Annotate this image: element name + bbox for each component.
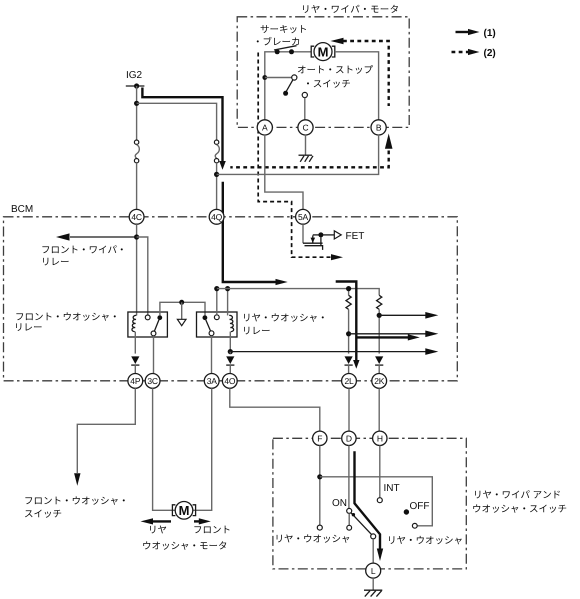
terminal A	[257, 120, 272, 135]
wire: 2L to D terminal	[348, 388, 350, 431]
junction on R2 line	[377, 313, 382, 318]
svg-text:リヤ・ワイパ アンド: リヤ・ワイパ アンド	[473, 490, 561, 501]
svg-text:BCM: BCM	[11, 204, 33, 215]
svg-text:H: H	[377, 433, 383, 443]
svg-text:フロント・ワイパ・: フロント・ワイパ・	[41, 245, 127, 256]
label: circuit breaker	[253, 24, 308, 48]
legend arrow (1)	[456, 28, 496, 39]
wire: relay contact bus with center tap	[160, 300, 205, 319]
svg-text:4O: 4O	[224, 376, 236, 386]
IG2 power terminal	[126, 70, 145, 89]
switch lever ON to washer contact	[351, 513, 376, 539]
svg-text:フロント・ウオッシャ・: フロント・ウオッシャ・	[15, 312, 120, 323]
svg-text:フロント・ウオッシャ・: フロント・ウオッシャ・	[24, 496, 129, 507]
terminal C	[298, 120, 313, 135]
label: rear washer (right)	[387, 536, 463, 547]
ground below C	[299, 135, 314, 162]
junction above 4O diode	[228, 349, 233, 354]
diode D1 above 4P	[131, 356, 139, 373]
junction on R1 line	[346, 331, 351, 336]
svg-text:M: M	[179, 503, 190, 518]
wire: junction to B terminal	[217, 135, 379, 175]
pin 4Q	[209, 209, 224, 224]
dotted feedback line (2): motor to B side	[230, 38, 392, 168]
thick arrow (1) to the right	[357, 334, 420, 340]
svg-text:ウオッシャ・モータ: ウオッシャ・モータ	[142, 541, 228, 552]
svg-text:ウオッシャ・スイッチ: ウオッシャ・スイッチ	[472, 504, 567, 515]
junction below 4C	[134, 234, 139, 239]
svg-text:OFF: OFF	[410, 501, 430, 512]
svg-text:M: M	[318, 44, 329, 59]
resistor R1	[346, 286, 351, 354]
svg-text:F: F	[317, 433, 322, 443]
wire: F junction to OFF contact	[320, 477, 433, 528]
label: front wiper relay	[41, 245, 127, 268]
wire: 4C into BCM	[136, 224, 138, 315]
rear washer relay box	[197, 312, 238, 337]
svg-text:リヤ・ワイパ・モータ: リヤ・ワイパ・モータ	[301, 5, 400, 16]
rear washer relay coil	[228, 289, 234, 350]
washer motor M	[172, 502, 195, 520]
rear direction arrow	[141, 518, 172, 524]
bracket line with thick drop	[336, 282, 360, 369]
svg-text:B: B	[376, 123, 382, 133]
svg-text:リヤ・ウオッシャ: リヤ・ウオッシャ	[275, 534, 351, 545]
svg-text:A: A	[262, 123, 268, 133]
terminal D	[342, 431, 356, 445]
svg-text:リヤ・ウオッシャ・: リヤ・ウオッシャ・	[242, 313, 328, 324]
wire: junction to front relay contact	[137, 237, 148, 315]
svg-text:4C: 4C	[131, 212, 142, 222]
label: rear washer (left)	[275, 534, 351, 545]
label: front washer relay	[14, 312, 120, 334]
diode D3 above 2L	[345, 356, 353, 373]
wire: 4Q feed across to resistors	[217, 289, 379, 296]
terminal L	[366, 563, 381, 578]
wire: 3C to washer motor	[153, 388, 175, 510]
svg-text:2L: 2L	[344, 376, 354, 386]
wire: 4O to F terminal	[230, 388, 320, 431]
open arrow contact symbol	[177, 319, 186, 325]
rear wiper motor unit boundary box	[237, 17, 409, 128]
junction dots on relay feed wire	[214, 286, 230, 291]
wire: lever contact down to L	[372, 539, 374, 563]
svg-text:IG2: IG2	[126, 70, 143, 81]
pin 3C	[145, 374, 160, 389]
svg-text:リヤ・ウオッシャ: リヤ・ウオッシャ	[387, 536, 463, 547]
svg-text:2K: 2K	[374, 376, 385, 386]
svg-text:4Q: 4Q	[211, 212, 223, 222]
front direction arrow	[194, 518, 211, 524]
pin 2K	[372, 374, 387, 389]
svg-text:リレー: リレー	[14, 323, 43, 334]
thick line (1): down into BCM to right arrow	[223, 182, 288, 285]
svg-text:L: L	[371, 566, 376, 576]
wire: 3A to washer motor	[193, 388, 212, 510]
svg-text:リレー: リレー	[242, 326, 271, 337]
pin 3A	[204, 374, 219, 389]
wire: D down to ON pivot	[347, 446, 352, 531]
thick feed line (1): IG2 down to junction above 4Q	[142, 88, 225, 170]
svg-text:3A: 3A	[207, 376, 218, 386]
junction on IG2 wire	[134, 101, 139, 106]
terminal F	[313, 431, 327, 445]
signal arrow from R1 junction	[349, 331, 439, 338]
auto stop switch contacts	[262, 75, 307, 121]
label: rear washer relay	[242, 313, 328, 337]
wire: A terminal down to 5A	[265, 135, 303, 210]
junction below F	[317, 474, 322, 479]
wire: H down to INT contact	[377, 446, 399, 503]
svg-text:5A: 5A	[298, 212, 309, 222]
pin 4C	[129, 209, 144, 224]
wire: A terminal up to circuit breaker	[265, 52, 311, 121]
dashed line (2): circuit breaker to FET gate	[258, 53, 343, 261]
svg-text:(2): (2)	[484, 48, 496, 59]
BCM module boundary box	[4, 204, 458, 381]
label: washer motor	[142, 541, 228, 552]
label: front washer switch	[24, 496, 129, 520]
diode D2 above 4O	[226, 356, 234, 373]
svg-text:C: C	[303, 123, 309, 133]
pin 2L	[342, 374, 357, 389]
terminal B	[371, 120, 386, 135]
diode D4 above 2K	[375, 356, 383, 373]
svg-text:D: D	[346, 433, 352, 443]
wire: IG2 junction to 4Q with inline connector	[137, 103, 220, 209]
legend arrow (2)	[452, 48, 496, 59]
front washer relay contacts	[145, 315, 162, 374]
front washer relay box	[128, 312, 167, 337]
wire: 2K to H terminal	[378, 388, 380, 431]
svg-text:ON: ON	[332, 498, 347, 509]
terminal H	[373, 431, 387, 445]
svg-text:リレー: リレー	[41, 257, 70, 268]
svg-text:INT: INT	[384, 483, 400, 494]
svg-text:FET: FET	[346, 231, 365, 242]
svg-text:オート・ストップ: オート・ストップ	[297, 65, 374, 76]
wire: IG2 to 4C with inline connector	[134, 86, 139, 210]
pin 4O	[222, 374, 237, 389]
label: auto stop switch	[297, 65, 374, 90]
ground below L	[364, 578, 382, 597]
arrow to front wiper relay	[56, 233, 137, 240]
rear wiper and washer switch boundary box	[273, 438, 466, 569]
svg-text:リヤ: リヤ	[148, 525, 167, 536]
ON label	[332, 498, 347, 509]
svg-text:4P: 4P	[130, 376, 141, 386]
label: rear / front	[148, 525, 231, 536]
OFF position dot	[404, 501, 430, 515]
pin 5A	[296, 209, 311, 224]
rear washer relay contacts	[203, 291, 220, 374]
svg-text:(1): (1)	[484, 28, 496, 39]
resistor R2	[377, 295, 382, 353]
svg-text:・スイッチ: ・スイッチ	[303, 79, 351, 90]
label: rear wiper motor title	[301, 5, 400, 16]
signal arrow from R2 junction	[379, 312, 438, 319]
wire: 4P to front washer switch arrow	[74, 388, 135, 486]
FET symbol	[303, 224, 364, 250]
svg-text:3C: 3C	[147, 376, 158, 386]
thick line (1): D through ON lever to L	[355, 451, 384, 561]
svg-text:スイッチ: スイッチ	[24, 509, 62, 520]
wire: motor to B terminal	[335, 52, 379, 121]
front washer relay coil	[132, 315, 136, 353]
pin 4P	[128, 374, 143, 389]
label: rear wiper and washer switch	[472, 490, 567, 515]
svg-text:フロント: フロント	[193, 525, 231, 536]
motor M (rear wiper)	[311, 43, 335, 61]
signal arrow from 4O junction	[230, 348, 438, 355]
wire: F down to washer contact	[317, 446, 322, 531]
junction above 4Q	[214, 172, 219, 177]
svg-text:サーキット: サーキット	[260, 24, 308, 35]
circuit breaker CB contacts	[274, 46, 297, 55]
